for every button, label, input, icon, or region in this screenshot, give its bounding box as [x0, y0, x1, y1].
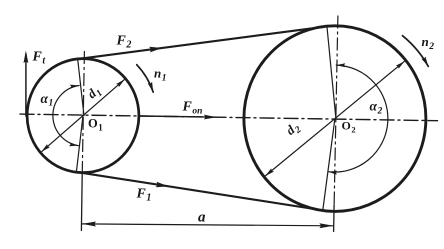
pulley 1 (small, driving) — [27, 59, 139, 173]
pulley 2 (large, driven) — [244, 26, 426, 212]
svg-text:a: a — [198, 210, 206, 226]
force Ft vertical arrow at rim of pulley 1 — [25, 54, 27, 116]
radius line O1 to bottom belt tangent point — [76, 116, 83, 173]
diameter d1 double arrow — [41, 79, 124, 152]
dimension extension line below pulley 1 — [80, 174, 83, 231]
vertical centerline of pulley 1 — [82, 52, 84, 177]
dimension extension line below pulley 2 — [333, 205, 336, 232]
wrap angle alpha1 arc — [53, 86, 79, 146]
force Fop arrow along axis — [140, 116, 213, 117]
belt bottom run — [74, 172, 320, 210]
vertical centerline of pulley 2 — [334, 16, 338, 206]
belt top run — [76, 27, 323, 59]
rotation n2 curved arrow — [403, 36, 429, 67]
wrap angle alpha2 arc — [328, 65, 388, 172]
radius line O2 to top belt tangent point — [327, 26, 336, 119]
radius line O2 to bottom belt tangent point — [323, 119, 335, 211]
horizontal center axis through O1 and O2 — [20, 114, 438, 121]
centre distance dimension a — [82, 224, 333, 226]
radius line O1 to top belt tangent point — [78, 58, 84, 115]
force F2 arrowhead on top belt — [149, 47, 162, 53]
force F1 arrowhead on bottom belt — [156, 182, 169, 188]
diameter d2 double arrow — [265, 61, 404, 176]
rotation n1 curved arrow — [137, 65, 154, 92]
